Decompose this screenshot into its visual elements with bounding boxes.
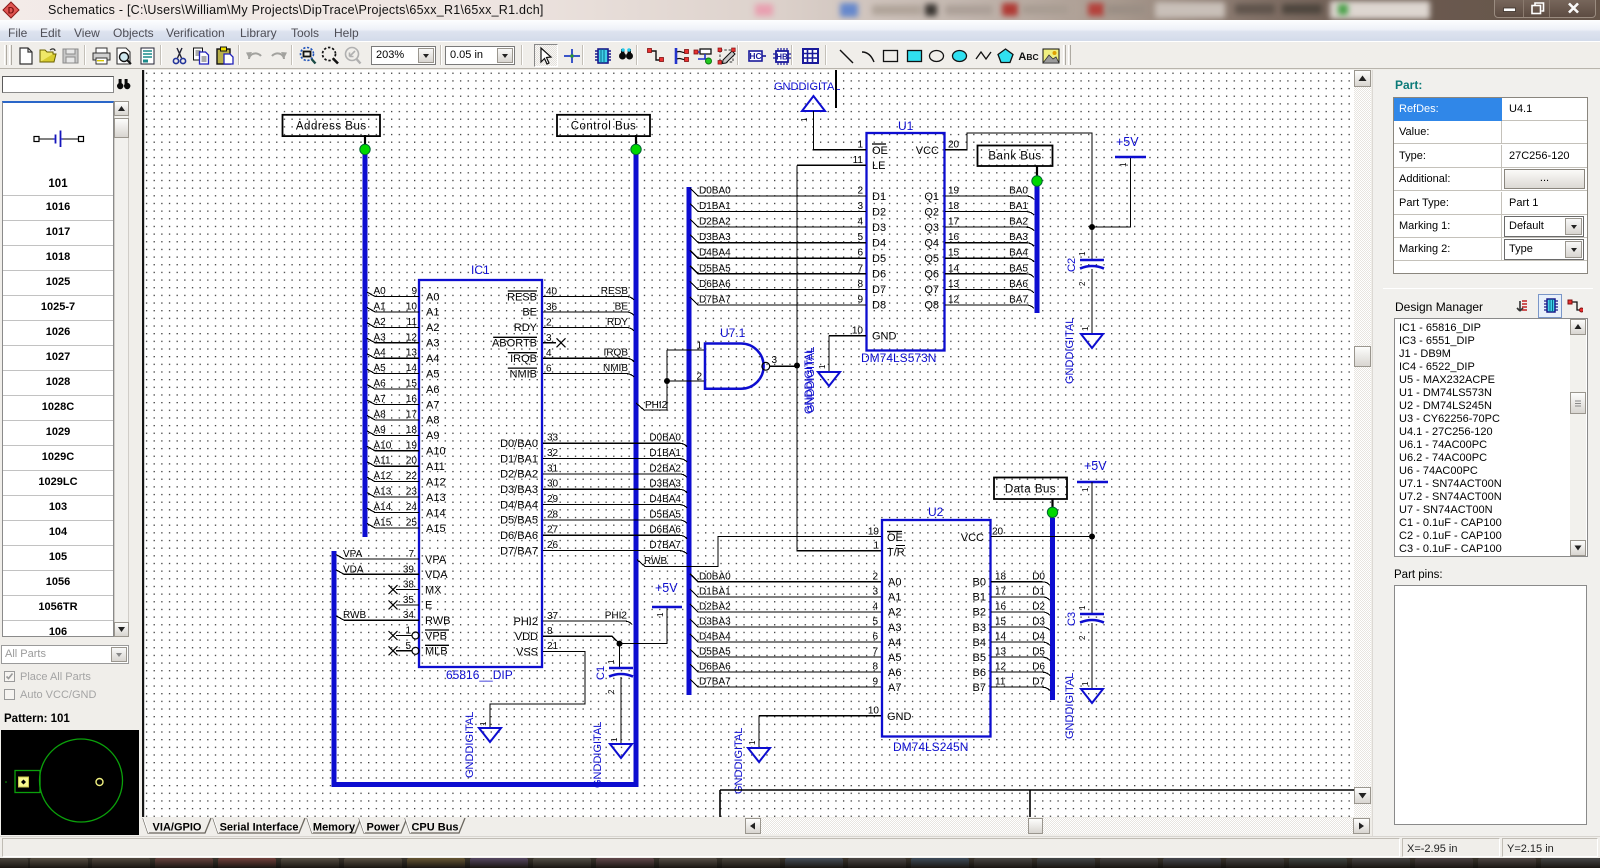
- svg-text:35: 35: [403, 595, 415, 606]
- svg-text:D0BA0: D0BA0: [699, 571, 731, 582]
- svg-text:18: 18: [995, 571, 1007, 582]
- svg-text:A10: A10: [426, 446, 446, 458]
- svg-text:BA5: BA5: [1009, 263, 1028, 274]
- svg-text:B7: B7: [973, 682, 986, 694]
- svg-text:10: 10: [868, 706, 880, 717]
- svg-text:A0: A0: [374, 286, 387, 297]
- svg-text:A8: A8: [426, 415, 439, 427]
- svg-text:8: 8: [857, 279, 863, 290]
- svg-text:D1BA1: D1BA1: [649, 448, 681, 459]
- svg-text:2: 2: [607, 689, 616, 694]
- svg-text:15: 15: [948, 248, 960, 259]
- svg-text:3: 3: [546, 333, 552, 344]
- svg-text:A7: A7: [426, 399, 439, 411]
- svg-text:PHI2: PHI2: [514, 616, 538, 628]
- svg-text:14: 14: [995, 632, 1007, 643]
- svg-text:3: 3: [872, 586, 878, 597]
- svg-text:Serial Interface: Serial Interface: [220, 822, 299, 834]
- svg-text:1: 1: [1081, 681, 1090, 686]
- svg-text:D5/BA5: D5/BA5: [500, 515, 538, 527]
- svg-text:A1: A1: [426, 307, 439, 319]
- svg-text:GNDDIGITAL: GNDDIGITAL: [1064, 673, 1076, 739]
- svg-text:37: 37: [547, 611, 559, 622]
- svg-text:MX: MX: [425, 584, 442, 596]
- svg-text:23: 23: [406, 487, 418, 498]
- svg-text:D4BA4: D4BA4: [649, 494, 681, 505]
- svg-text:A14: A14: [426, 507, 446, 519]
- svg-text:A0: A0: [426, 291, 439, 303]
- svg-text:34: 34: [403, 610, 415, 621]
- svg-text:13: 13: [995, 647, 1007, 658]
- svg-text:D1: D1: [1032, 586, 1045, 597]
- svg-text:15: 15: [995, 616, 1007, 627]
- svg-text:D2BA2: D2BA2: [699, 217, 731, 228]
- svg-text:12: 12: [995, 662, 1007, 673]
- svg-text:GND: GND: [872, 331, 897, 343]
- svg-text:A1: A1: [888, 592, 901, 604]
- svg-text:4: 4: [857, 217, 863, 228]
- svg-text:BA0: BA0: [1009, 186, 1028, 197]
- svg-text:1: 1: [1078, 251, 1087, 256]
- svg-text:19: 19: [868, 527, 880, 538]
- svg-text:11: 11: [853, 155, 864, 166]
- svg-text:1: 1: [405, 626, 411, 637]
- svg-text:OE: OE: [887, 532, 903, 544]
- svg-text:2: 2: [1078, 635, 1087, 640]
- svg-text:LE: LE: [872, 160, 885, 172]
- svg-text:GNDDIGITAL: GNDDIGITAL: [592, 722, 604, 788]
- svg-text:PHI2: PHI2: [605, 611, 628, 622]
- svg-text:D2: D2: [1032, 601, 1045, 612]
- svg-text:Q4: Q4: [924, 237, 939, 249]
- svg-text:14: 14: [948, 263, 960, 274]
- svg-text:D2BA2: D2BA2: [699, 601, 731, 612]
- svg-text:ABORTB: ABORTB: [492, 338, 537, 350]
- svg-text:A6: A6: [374, 379, 387, 390]
- svg-text:31: 31: [547, 463, 559, 474]
- svg-text:D7BA7: D7BA7: [649, 540, 681, 551]
- svg-text:U1: U1: [898, 119, 914, 133]
- svg-text:ABC: ABC: [1018, 51, 1038, 63]
- svg-text:GNDDIGITAL: GNDDIGITAL: [805, 347, 817, 413]
- svg-text:A13: A13: [374, 487, 392, 498]
- svg-text:B6: B6: [973, 667, 986, 679]
- svg-text:7: 7: [857, 263, 863, 274]
- svg-text:26: 26: [547, 540, 559, 551]
- svg-text:HB: HB: [776, 53, 788, 62]
- svg-text:A4: A4: [888, 637, 901, 649]
- svg-text:A1: A1: [374, 301, 387, 312]
- svg-text:24: 24: [406, 502, 418, 513]
- svg-text:D5BA5: D5BA5: [699, 263, 731, 274]
- svg-text:1: 1: [873, 541, 879, 552]
- svg-text:18: 18: [406, 425, 418, 436]
- svg-text:D7: D7: [872, 284, 886, 296]
- svg-text:A2: A2: [426, 322, 439, 334]
- svg-text:VDA: VDA: [343, 564, 364, 575]
- svg-text:A15: A15: [374, 517, 392, 528]
- svg-text:D1/BA1: D1/BA1: [500, 453, 538, 465]
- svg-text:4: 4: [872, 601, 878, 612]
- svg-text:Q5: Q5: [924, 253, 939, 265]
- svg-text:28: 28: [547, 509, 559, 520]
- svg-text:D0: D0: [1032, 571, 1045, 582]
- svg-text:7: 7: [408, 549, 414, 560]
- svg-text:B1: B1: [973, 592, 986, 604]
- svg-text:D7/BA7: D7/BA7: [500, 545, 538, 557]
- svg-text:BA7: BA7: [1009, 294, 1028, 305]
- svg-text:3: 3: [772, 355, 778, 366]
- svg-text:40: 40: [546, 287, 558, 298]
- svg-text:A11: A11: [374, 456, 391, 467]
- svg-text:B0: B0: [973, 577, 986, 589]
- svg-text:1: 1: [1081, 487, 1090, 492]
- svg-text:9: 9: [411, 286, 417, 297]
- svg-text:CPU Bus: CPU Bus: [411, 822, 458, 834]
- svg-text:16: 16: [995, 601, 1007, 612]
- svg-text:U2: U2: [928, 505, 944, 519]
- svg-text:D5BA5: D5BA5: [699, 647, 731, 658]
- svg-text:20: 20: [992, 527, 1004, 538]
- svg-text:10: 10: [406, 301, 418, 312]
- svg-text:D3BA3: D3BA3: [699, 616, 731, 627]
- svg-text:A7: A7: [374, 394, 387, 405]
- svg-text:D7BA7: D7BA7: [699, 294, 731, 305]
- svg-text:RWB: RWB: [343, 610, 366, 621]
- svg-text:A6: A6: [888, 667, 901, 679]
- svg-text:A6: A6: [426, 384, 439, 396]
- svg-text:A3: A3: [374, 332, 387, 343]
- svg-text:PHI2: PHI2: [645, 400, 668, 411]
- svg-text:A2: A2: [374, 317, 387, 328]
- svg-text:1: 1: [479, 721, 488, 726]
- svg-text:C2: C2: [1066, 258, 1078, 272]
- svg-text:A7: A7: [888, 682, 901, 694]
- svg-text:GNDDIGITAL: GNDDIGITAL: [1064, 318, 1076, 384]
- svg-text:18: 18: [948, 201, 960, 212]
- svg-text:A5: A5: [426, 368, 439, 380]
- svg-text:IC1: IC1: [471, 263, 490, 277]
- svg-text:+5V: +5V: [1084, 459, 1107, 473]
- svg-text:D4BA4: D4BA4: [699, 632, 731, 643]
- svg-text:D1BA1: D1BA1: [699, 586, 731, 597]
- svg-text:2: 2: [1078, 281, 1087, 286]
- svg-text:VSS: VSS: [516, 646, 538, 658]
- svg-text:9: 9: [872, 677, 878, 688]
- svg-text:A3: A3: [426, 338, 439, 350]
- svg-text:VCC: VCC: [961, 532, 984, 544]
- svg-text:B3: B3: [973, 622, 986, 634]
- svg-text:11: 11: [995, 677, 1006, 688]
- svg-text:16: 16: [406, 394, 418, 405]
- svg-text:A4: A4: [426, 353, 439, 365]
- svg-text:A0: A0: [888, 577, 901, 589]
- svg-text:12: 12: [406, 332, 418, 343]
- svg-text:D6/BA6: D6/BA6: [500, 530, 538, 542]
- svg-text:U7.1: U7.1: [720, 326, 746, 340]
- svg-text:Memory: Memory: [313, 822, 356, 834]
- svg-text:12: 12: [948, 294, 960, 305]
- svg-text:9: 9: [857, 294, 863, 305]
- svg-text:10: 10: [852, 326, 864, 337]
- svg-text:36: 36: [546, 302, 558, 313]
- svg-text:1: 1: [857, 140, 863, 151]
- svg-text:BA4: BA4: [1009, 248, 1028, 259]
- svg-text:33: 33: [547, 433, 559, 444]
- svg-text:Q7: Q7: [924, 284, 939, 296]
- svg-text:A8: A8: [374, 409, 387, 420]
- svg-text:RDY: RDY: [514, 322, 538, 334]
- svg-text:3: 3: [857, 201, 863, 212]
- svg-text:RESB: RESB: [507, 291, 537, 303]
- svg-text:RDY: RDY: [607, 317, 628, 328]
- svg-text:1: 1: [748, 740, 757, 745]
- svg-text:5: 5: [405, 641, 411, 652]
- svg-text:6: 6: [546, 364, 552, 375]
- svg-text:D4BA4: D4BA4: [699, 248, 731, 259]
- svg-text:65816__DIP: 65816__DIP: [446, 668, 513, 682]
- svg-text:1: 1: [610, 737, 619, 742]
- svg-text:8: 8: [547, 626, 553, 637]
- svg-text:D3: D3: [872, 222, 886, 234]
- svg-text:VPA: VPA: [425, 554, 447, 566]
- svg-text:D6BA6: D6BA6: [699, 279, 731, 290]
- svg-text:Q3: Q3: [924, 222, 939, 234]
- svg-text:A12: A12: [426, 476, 446, 488]
- svg-text:Control Bus: Control Bus: [571, 121, 637, 133]
- svg-text:22: 22: [406, 471, 418, 482]
- svg-text:E: E: [425, 600, 432, 612]
- svg-text:Q2: Q2: [924, 206, 939, 218]
- svg-text:Q8: Q8: [924, 300, 939, 312]
- svg-text:A3: A3: [888, 622, 901, 634]
- svg-text:D3BA3: D3BA3: [649, 479, 681, 490]
- svg-text:B4: B4: [973, 637, 986, 649]
- svg-text:D4: D4: [1032, 632, 1045, 643]
- svg-text:D6: D6: [872, 269, 886, 281]
- svg-text:Data Bus: Data Bus: [1005, 484, 1056, 496]
- svg-text:D1BA1: D1BA1: [699, 201, 731, 212]
- svg-text:D3BA3: D3BA3: [699, 232, 731, 243]
- svg-text:1: 1: [800, 117, 809, 122]
- svg-text:VIA/GPIO: VIA/GPIO: [153, 822, 202, 834]
- svg-text:DM74LS573N: DM74LS573N: [861, 351, 936, 365]
- svg-text:D7: D7: [1032, 677, 1045, 688]
- svg-text:C3: C3: [1066, 612, 1078, 626]
- svg-text:NMIB: NMIB: [510, 368, 538, 380]
- svg-text:A15: A15: [426, 523, 446, 535]
- svg-text:39: 39: [403, 564, 415, 575]
- svg-text:B5: B5: [973, 652, 986, 664]
- svg-text:D5BA5: D5BA5: [649, 509, 681, 520]
- svg-text:VPB: VPB: [425, 630, 447, 642]
- svg-text:17: 17: [406, 409, 418, 420]
- svg-text:D: D: [8, 6, 15, 16]
- svg-text:A13: A13: [426, 492, 446, 504]
- svg-text:RWB: RWB: [425, 615, 450, 627]
- svg-text:32: 32: [547, 448, 559, 459]
- svg-text:2: 2: [857, 186, 863, 197]
- svg-text:1: 1: [696, 341, 702, 352]
- svg-text:16: 16: [948, 232, 960, 243]
- svg-text:RESB: RESB: [601, 286, 629, 297]
- svg-text:D3/BA3: D3/BA3: [500, 484, 538, 496]
- svg-text:VDD: VDD: [515, 631, 538, 643]
- svg-text:15: 15: [406, 379, 418, 390]
- svg-text:D6BA6: D6BA6: [649, 525, 681, 536]
- svg-text:1: 1: [1078, 605, 1087, 610]
- svg-text:BA1: BA1: [1009, 201, 1028, 212]
- svg-text:A5: A5: [374, 363, 387, 374]
- svg-text:HC: HC: [749, 51, 761, 61]
- svg-text:13: 13: [948, 279, 960, 290]
- svg-text:Q6: Q6: [924, 269, 939, 281]
- svg-text:8: 8: [872, 662, 878, 673]
- svg-text:D2BA2: D2BA2: [649, 463, 681, 474]
- svg-text:5: 5: [872, 616, 878, 627]
- svg-text:17: 17: [948, 217, 960, 228]
- svg-text:A5: A5: [888, 652, 901, 664]
- svg-text:6: 6: [872, 632, 878, 643]
- svg-text:D6: D6: [1032, 662, 1045, 673]
- svg-text:1: 1: [656, 612, 665, 617]
- svg-text:BE: BE: [615, 301, 629, 312]
- svg-text:VPA: VPA: [343, 549, 363, 560]
- svg-text:B2: B2: [973, 607, 986, 619]
- svg-text:17: 17: [995, 586, 1007, 597]
- svg-text:4: 4: [546, 348, 552, 359]
- svg-text:D5: D5: [872, 253, 886, 265]
- svg-text:D4: D4: [872, 237, 886, 249]
- svg-text:+5V: +5V: [1116, 135, 1139, 149]
- svg-text:IRQB: IRQB: [510, 353, 537, 365]
- svg-text:D4/BA4: D4/BA4: [500, 499, 538, 511]
- svg-text:IRQB: IRQB: [604, 348, 629, 359]
- svg-text:19: 19: [406, 440, 418, 451]
- svg-text:OE: OE: [872, 145, 888, 157]
- svg-text:A2: A2: [888, 607, 901, 619]
- svg-text:20: 20: [948, 140, 960, 151]
- svg-text:1: 1: [1119, 162, 1128, 167]
- svg-text:A11: A11: [426, 461, 445, 473]
- svg-text:D2/BA2: D2/BA2: [500, 469, 538, 481]
- svg-text:5: 5: [857, 232, 863, 243]
- svg-text:D3: D3: [1032, 616, 1045, 627]
- svg-text:6: 6: [857, 248, 863, 259]
- svg-text:29: 29: [547, 494, 559, 505]
- svg-text:25: 25: [406, 517, 418, 528]
- svg-text:Address Bus: Address Bus: [296, 121, 367, 133]
- svg-text:GNDDIGITAL: GNDDIGITAL: [774, 81, 840, 93]
- svg-text:D8: D8: [872, 300, 886, 312]
- svg-text:1: 1: [1081, 326, 1090, 331]
- svg-text:30: 30: [547, 479, 559, 490]
- svg-text:BA6: BA6: [1009, 279, 1028, 290]
- svg-text:D0BA0: D0BA0: [649, 433, 681, 444]
- svg-text:VDA: VDA: [425, 569, 448, 581]
- svg-text:A12: A12: [374, 471, 392, 482]
- svg-text:A10: A10: [374, 440, 392, 451]
- svg-text:19: 19: [948, 186, 960, 197]
- svg-text:11: 11: [407, 317, 418, 328]
- svg-text:D5: D5: [1032, 647, 1045, 658]
- svg-text:Bank Bus: Bank Bus: [988, 151, 1041, 163]
- svg-text:MLB: MLB: [425, 646, 448, 658]
- svg-text:Q1: Q1: [924, 191, 939, 203]
- svg-text:A4: A4: [374, 348, 387, 359]
- svg-text:D7BA7: D7BA7: [699, 677, 731, 688]
- svg-text:VCC: VCC: [916, 145, 939, 157]
- svg-text:D0BA0: D0BA0: [699, 186, 731, 197]
- svg-text:101: 101: [48, 178, 68, 190]
- svg-text:RWB: RWB: [644, 556, 667, 567]
- svg-text:NMIB: NMIB: [603, 363, 628, 374]
- svg-text:38: 38: [403, 580, 415, 591]
- svg-text:BA3: BA3: [1009, 232, 1028, 243]
- svg-text:A9: A9: [374, 425, 387, 436]
- svg-text:2: 2: [872, 571, 878, 582]
- svg-text:+5V: +5V: [655, 581, 678, 595]
- svg-text:1: 1: [607, 659, 616, 664]
- svg-text:A9: A9: [426, 430, 439, 442]
- svg-text:D0/BA0: D0/BA0: [500, 438, 538, 450]
- svg-text:BE: BE: [522, 307, 537, 319]
- svg-text:A14: A14: [374, 502, 392, 513]
- svg-text:DM74LS245N: DM74LS245N: [893, 740, 968, 754]
- svg-text:GNDDIGITAL: GNDDIGITAL: [464, 712, 476, 778]
- svg-text:14: 14: [406, 363, 418, 374]
- svg-text:Power: Power: [366, 822, 400, 834]
- svg-text:7: 7: [872, 647, 878, 658]
- svg-text:D2: D2: [872, 206, 886, 218]
- svg-text:T/R: T/R: [887, 547, 905, 559]
- svg-text:21: 21: [547, 641, 559, 652]
- svg-text:20: 20: [406, 456, 418, 467]
- svg-text:1: 1: [818, 364, 827, 369]
- svg-text:GNDDIGITAL: GNDDIGITAL: [733, 728, 745, 794]
- svg-text:BA2: BA2: [1009, 217, 1028, 228]
- svg-text:D6BA6: D6BA6: [699, 662, 731, 673]
- svg-text:13: 13: [406, 348, 418, 359]
- svg-text:GND: GND: [887, 711, 912, 723]
- svg-text:D1: D1: [872, 191, 886, 203]
- svg-text:2: 2: [696, 372, 702, 383]
- svg-text:27: 27: [547, 525, 559, 536]
- svg-text:C1: C1: [595, 666, 607, 680]
- svg-text:2: 2: [546, 317, 552, 328]
